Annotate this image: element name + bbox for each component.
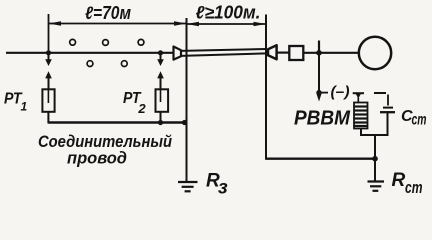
capacitor Cst bottom plate	[380, 111, 395, 113]
wire sleeve to box	[278, 51, 290, 53]
dimension line l>=100m	[187, 23, 267, 25]
dimension line l=70m	[49, 23, 187, 25]
overhead line wire	[6, 52, 173, 54]
extension line left (dimension l=70m)	[48, 14, 50, 54]
insulator o marks above wire	[70, 39, 76, 45]
spark gap arrows above PT1	[48, 53, 50, 61]
PT2 bottom lead	[160, 112, 162, 123]
tubular arrester PT1 body	[42, 89, 54, 112]
spark gap arrows above PT2	[160, 53, 162, 61]
node: wire tap 1	[46, 50, 51, 55]
svg-text:з: з	[218, 178, 228, 199]
svg-text:Соединительный: Соединительный	[38, 133, 172, 151]
dashed negative link	[374, 92, 386, 94]
node: PT2 to connecting wire	[158, 120, 163, 125]
station earth wire	[266, 157, 375, 159]
node: connecting wire to down-conductor	[182, 120, 187, 125]
tap lead down with arrow	[318, 53, 320, 96]
extension line right / down-conductor to station ground	[265, 15, 267, 159]
svg-text:ст: ст	[412, 112, 427, 129]
capacitor Cst top plate	[383, 107, 393, 109]
node: negative bus dot	[316, 90, 321, 95]
extension line / down-conductor to Rz ground	[186, 18, 188, 181]
cable end sleeve right	[268, 45, 277, 59]
node: wire tap 2	[158, 50, 163, 55]
svg-text:провод: провод	[67, 150, 127, 168]
machine (generator) circle	[359, 37, 391, 69]
capacitor bottom lead	[386, 112, 388, 135]
svg-text:ст: ст	[405, 179, 423, 197]
tap stub up	[318, 41, 320, 53]
svg-text:(–): (–)	[331, 84, 350, 101]
wire box to machine	[303, 52, 359, 54]
ground symbol Rst	[368, 180, 385, 182]
branch down to station ground	[374, 135, 376, 181]
PT1 bottom lead	[48, 112, 54, 123]
node: machine terminal tap	[316, 50, 322, 56]
svg-text:R: R	[392, 170, 406, 191]
connecting wire (bond between arresters and ground lead)	[48, 121, 186, 123]
svg-text:1: 1	[21, 100, 28, 114]
svg-text:2: 2	[137, 101, 146, 116]
node: earth wire junction	[372, 156, 378, 162]
ground symbol Rz	[178, 181, 198, 183]
cable run (two parallel lines)	[181, 49, 267, 51]
cable end sleeve left	[174, 47, 182, 60]
svg-text:ℓ=70м: ℓ=70м	[85, 3, 131, 23]
RVVM bottom lead and tie bar	[361, 129, 388, 136]
insulator o marks below wire	[87, 61, 93, 67]
arrester RVVM top bar and gap arrow	[353, 92, 364, 94]
svg-text:ℓ≥100м.: ℓ≥100м.	[196, 3, 261, 23]
arrester RVVM hatched body	[354, 103, 368, 129]
series box (coupling)	[289, 46, 303, 60]
tubular arrester PT2 body	[156, 89, 169, 112]
svg-text:РВВМ: РВВМ	[294, 108, 351, 130]
